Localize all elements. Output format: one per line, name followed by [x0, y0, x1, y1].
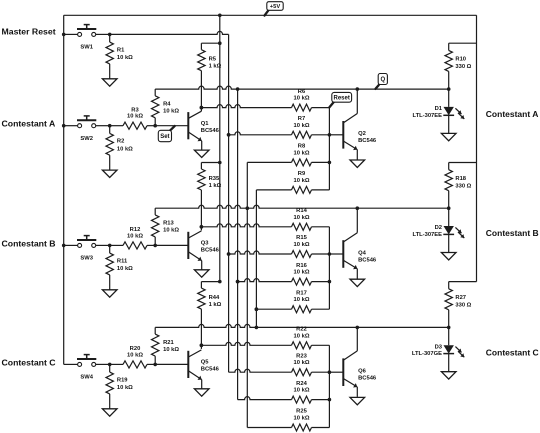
- svg-text:R3: R3: [131, 107, 139, 113]
- ground under R11: [102, 290, 117, 297]
- node Q_C junctions: [356, 326, 360, 330]
- ground under Q4 emitter: [350, 279, 365, 286]
- svg-text:Q2: Q2: [358, 131, 366, 137]
- node +5V rail to bus1 junction: [218, 14, 222, 18]
- svg-text:R8: R8: [298, 144, 306, 150]
- ground under D2: [441, 253, 456, 260]
- svg-text:SW2: SW2: [80, 136, 93, 142]
- resistor R23 10 kΩ: [292, 369, 312, 376]
- resistor R10 330 Ω: [448, 43, 450, 50]
- wire R22 feed line: [201, 342, 291, 345]
- label Reset flag: [329, 102, 334, 107]
- svg-text:R23: R23: [296, 353, 307, 359]
- ground under R19: [102, 409, 117, 416]
- svg-text:R12: R12: [130, 227, 141, 233]
- svg-text:D2: D2: [435, 225, 442, 231]
- svg-text:10 kΩ: 10 kΩ: [294, 388, 310, 394]
- resistor R18 330 Ω: [448, 163, 450, 170]
- svg-text:10 kΩ: 10 kΩ: [163, 228, 179, 234]
- svg-text:330 Ω: 330 Ω: [455, 64, 471, 70]
- resistor R22 10 kΩ: [292, 342, 312, 349]
- svg-text:10 kΩ: 10 kΩ: [127, 114, 143, 120]
- node Q1 collector junction: [200, 106, 204, 110]
- svg-text:R27: R27: [455, 295, 466, 301]
- resistor R27 330 Ω: [448, 282, 450, 289]
- resistor R16 10 kΩ: [292, 278, 312, 285]
- svg-text:SW3: SW3: [80, 256, 93, 262]
- svg-text:Set: Set: [160, 134, 169, 140]
- resistor R21 10 kΩ feedback: [154, 327, 156, 334]
- power +5V label: [265, 10, 269, 15]
- wire bus B5 (Q_C output distribution): [255, 190, 257, 328]
- svg-text:Contestant A: Contestant A: [486, 109, 539, 119]
- svg-text:R9: R9: [298, 171, 306, 177]
- svg-text:10 kΩ: 10 kΩ: [294, 215, 310, 221]
- resistor R11 10 kΩ: [109, 245, 111, 253]
- transistor Q5 BC546 NPN: [187, 351, 189, 378]
- LED D2 LTL-307EE: [448, 208, 450, 226]
- svg-text:10 kΩ: 10 kΩ: [117, 147, 133, 153]
- wire R8 feed line: [247, 161, 291, 163]
- wire R23 feed line: [229, 369, 292, 372]
- svg-text:R35: R35: [209, 176, 220, 182]
- wire R18 feed stub from right bus: [449, 162, 477, 164]
- wire R35 top feed from +5V bus: [201, 162, 219, 164]
- svg-text:10 kΩ: 10 kΩ: [127, 233, 143, 239]
- svg-text:BC546: BC546: [358, 257, 377, 263]
- node base node junction: [153, 363, 157, 367]
- resistor R13 10 kΩ feedback: [154, 208, 156, 215]
- svg-text:10 kΩ: 10 kΩ: [294, 297, 310, 303]
- resistor R20 10 kΩ: [123, 361, 147, 368]
- node R11 top junction: [108, 244, 112, 248]
- resistor R1 10 kΩ: [109, 34, 111, 42]
- wire bus B2 (reset distribution): [228, 34, 230, 372]
- node R7 base-bus junction: [328, 133, 332, 137]
- svg-text:R20: R20: [130, 346, 141, 352]
- svg-text:1 kΩ: 1 kΩ: [209, 64, 222, 70]
- wire Q4 base lead: [329, 253, 343, 255]
- svg-text:10 kΩ: 10 kΩ: [294, 150, 310, 156]
- resistor R4 10 kΩ feedback: [154, 89, 156, 96]
- resistor R3 10 kΩ: [123, 122, 147, 129]
- svg-text:10 kΩ: 10 kΩ: [117, 266, 133, 272]
- wire Q2 base bus: [328, 108, 330, 190]
- node Q_B junctions: [356, 206, 360, 210]
- svg-text:R5: R5: [209, 57, 217, 63]
- svg-text:R13: R13: [163, 221, 174, 227]
- node base node junction: [153, 124, 157, 128]
- ground under D3: [441, 372, 456, 379]
- svg-text:BC546: BC546: [201, 128, 220, 134]
- node R17 left junction: [255, 307, 259, 311]
- wire base node to Q1 base: [155, 125, 188, 127]
- resistor R24 10 kΩ: [292, 396, 312, 403]
- node bus B3 top junction: [236, 87, 240, 91]
- switch SW1 pushbutton: [78, 32, 82, 36]
- svg-text:Q1: Q1: [201, 121, 210, 127]
- svg-text:BC546: BC546: [358, 376, 377, 382]
- svg-text:Contestant B: Contestant B: [486, 228, 539, 238]
- node bus B5 junctions: [255, 307, 259, 311]
- wire R17 feed line: [256, 308, 291, 310]
- svg-text:Master Reset: Master Reset: [2, 27, 56, 37]
- ground under R1: [102, 79, 117, 86]
- wire R15 feed line: [229, 251, 292, 254]
- svg-text:LTL-307EE: LTL-307EE: [412, 232, 442, 238]
- svg-text:10 kΩ: 10 kΩ: [294, 242, 310, 248]
- resistor R25 10 kΩ: [292, 424, 312, 431]
- switch SW3 pushbutton: [78, 243, 82, 247]
- svg-text:+5V: +5V: [270, 4, 281, 10]
- svg-text:Q: Q: [380, 77, 385, 83]
- node R23 base-bus junction: [328, 370, 332, 374]
- LED D3 LTL-307GE: [448, 327, 450, 345]
- wire row A switch line: [64, 125, 78, 127]
- svg-text:Q4: Q4: [358, 250, 367, 256]
- resistor R15 10 kΩ: [292, 251, 312, 258]
- svg-text:10 kΩ: 10 kΩ: [294, 270, 310, 276]
- svg-text:R14: R14: [296, 208, 307, 214]
- svg-text:BC546: BC546: [201, 248, 220, 254]
- wire Q4 base bus: [328, 227, 330, 309]
- svg-text:LTL-307EE: LTL-307EE: [412, 113, 442, 119]
- switch SW2 pushbutton: [78, 124, 82, 128]
- svg-text:330 Ω: 330 Ω: [455, 303, 471, 309]
- wire Q6 base bus: [328, 345, 330, 427]
- wire right supply bus: [476, 15, 478, 281]
- svg-text:1 kΩ: 1 kΩ: [209, 302, 222, 308]
- node R19 top junction: [108, 363, 112, 367]
- wire master reset to bus B2: [110, 31, 229, 34]
- label Set flag: [170, 126, 175, 131]
- node R15 left junction: [227, 252, 231, 256]
- wire base node to Q5 base: [155, 363, 188, 365]
- svg-text:R4: R4: [163, 102, 171, 108]
- svg-text:R24: R24: [296, 381, 307, 387]
- wire Q_C output line (row C): [155, 324, 449, 327]
- svg-text:Contestant C: Contestant C: [486, 347, 539, 357]
- wire R24 feed line: [238, 397, 292, 400]
- node R2 top junction: [108, 124, 112, 128]
- LED D1 LTL-307EE: [448, 89, 450, 107]
- resistor R14 10 kΩ: [292, 223, 312, 230]
- wire R14 feed line: [201, 224, 291, 227]
- node Q5 collector junction: [200, 344, 204, 348]
- svg-text:R11: R11: [117, 258, 128, 264]
- resistor R44 1 kΩ pull-up: [200, 282, 202, 289]
- svg-text:BC546: BC546: [358, 138, 377, 144]
- resistor R9 10 kΩ: [292, 186, 312, 193]
- wire R12 to base node: [147, 244, 155, 246]
- wire bus B1 +5V distribution: [219, 15, 221, 281]
- ground under Q3 emitter: [194, 270, 209, 277]
- svg-text:330 Ω: 330 Ω: [455, 183, 471, 189]
- wire R7 feed line: [229, 132, 292, 135]
- svg-text:R16: R16: [296, 263, 307, 269]
- svg-text:R7: R7: [298, 116, 305, 122]
- resistor R8 10 kΩ: [292, 159, 312, 166]
- wire master reset row: [64, 33, 78, 35]
- node base node junction: [153, 244, 157, 248]
- wire R11 junction to R12: [110, 244, 123, 246]
- wire row C switch line: [64, 363, 78, 365]
- svg-text:10 kΩ: 10 kΩ: [117, 55, 133, 61]
- node Q3 collector junction: [200, 225, 204, 229]
- node left bus row B junction: [62, 244, 66, 248]
- wire R10 feed stub from right bus: [449, 42, 477, 44]
- resistor R19 10 kΩ: [109, 364, 111, 372]
- wire +5V top rail: [64, 14, 477, 16]
- svg-text:R19: R19: [117, 377, 128, 383]
- wire R27 feed stub from right bus: [449, 281, 477, 283]
- node R7 left junction: [227, 133, 231, 137]
- node bus B2 junctions: [227, 133, 231, 137]
- wire R20 to base node: [147, 363, 155, 365]
- svg-text:R15: R15: [296, 235, 307, 241]
- wire R19 junction to R20: [110, 363, 123, 365]
- node R6 left junction: [200, 106, 204, 110]
- svg-text:Contestant A: Contestant A: [2, 119, 56, 129]
- node bus B1 feeds: [218, 41, 222, 45]
- resistor R2 10 kΩ: [109, 126, 111, 134]
- svg-text:10 kΩ: 10 kΩ: [163, 347, 179, 353]
- svg-text:10 kΩ: 10 kΩ: [117, 385, 133, 391]
- node R8 base-bus junction: [328, 161, 332, 165]
- wire bus B4 (Q_B output distribution): [246, 162, 248, 427]
- svg-text:10 kΩ: 10 kΩ: [294, 333, 310, 339]
- svg-text:Q6: Q6: [358, 369, 367, 375]
- svg-text:R44: R44: [209, 295, 220, 301]
- node R16 base-bus junction: [328, 280, 332, 284]
- svg-text:R1: R1: [117, 47, 125, 53]
- wire base node to Q3 base: [155, 244, 188, 246]
- svg-text:10 kΩ: 10 kΩ: [294, 178, 310, 184]
- transistor Q3 BC546 NPN: [187, 232, 189, 259]
- svg-text:R21: R21: [163, 340, 174, 346]
- wire R5 top feed from +5V bus: [201, 42, 219, 44]
- svg-text:10 kΩ: 10 kΩ: [163, 109, 179, 115]
- switch SW4 pushbutton: [78, 362, 82, 366]
- wire R3 to base node: [147, 125, 155, 127]
- transistor Q6 BC546 NPN: [342, 358, 344, 386]
- wire Q6 base lead: [329, 371, 343, 373]
- node R16 left junction: [236, 280, 240, 284]
- svg-text:SW1: SW1: [80, 45, 93, 51]
- wire R6 feed line: [201, 105, 291, 108]
- ground under Q6 emitter: [350, 397, 365, 404]
- node bus B4 junction: [246, 206, 250, 210]
- svg-text:Reset: Reset: [334, 96, 350, 102]
- svg-text:R2: R2: [117, 139, 124, 145]
- svg-text:Contestant C: Contestant C: [2, 357, 57, 367]
- ground under Q1 emitter: [194, 150, 209, 157]
- label Q flag: [375, 85, 378, 89]
- svg-text:10 kΩ: 10 kΩ: [294, 360, 310, 366]
- svg-text:Contestant B: Contestant B: [2, 238, 56, 248]
- ground under D1: [441, 133, 456, 140]
- node left bus row A junction: [62, 124, 66, 128]
- ground under Q2 emitter: [350, 160, 365, 167]
- svg-text:BC546: BC546: [201, 367, 220, 373]
- wire R16 feed line: [238, 279, 292, 282]
- svg-text:Q3: Q3: [201, 241, 210, 247]
- wire R2 junction to R3: [110, 125, 123, 127]
- svg-text:1 kΩ: 1 kΩ: [209, 183, 222, 189]
- node Q_A junctions: [356, 87, 360, 91]
- wire Q_B output line (row B): [155, 205, 449, 208]
- svg-text:D1: D1: [435, 106, 443, 112]
- wire Q2 base lead: [329, 134, 343, 136]
- transistor Q4 BC546 NPN: [342, 240, 344, 268]
- svg-text:10 kΩ: 10 kΩ: [294, 123, 310, 129]
- svg-text:SW4: SW4: [80, 375, 93, 381]
- transistor Q1 BC546 NPN: [187, 112, 189, 139]
- svg-text:LTL-307GE: LTL-307GE: [412, 351, 442, 357]
- resistor R35 1 kΩ pull-up: [200, 163, 202, 170]
- svg-text:10 kΩ: 10 kΩ: [294, 416, 310, 422]
- wire row B switch line: [64, 244, 78, 246]
- resistor R12 10 kΩ: [123, 242, 147, 249]
- node R22 left junction: [200, 344, 204, 348]
- ground under Q5 emitter: [194, 389, 209, 396]
- wire R9 feed line: [256, 189, 291, 191]
- svg-text:R22: R22: [296, 327, 307, 333]
- node R15 base-bus junction: [328, 252, 332, 256]
- node R14 left junction: [200, 225, 204, 229]
- transistor Q2 BC546 NPN: [342, 121, 344, 149]
- svg-text:10 kΩ: 10 kΩ: [127, 352, 143, 358]
- svg-text:R25: R25: [296, 409, 307, 415]
- resistor R17 10 kΩ: [292, 306, 312, 313]
- svg-text:R18: R18: [455, 176, 466, 182]
- wire left supply bus: [63, 15, 65, 364]
- wire bus B3 (Q_A output distribution): [237, 89, 239, 400]
- node R1 top junction: [108, 33, 112, 37]
- svg-text:R17: R17: [296, 290, 307, 296]
- svg-text:R10: R10: [455, 57, 466, 63]
- node R24 base-bus junction: [328, 398, 332, 402]
- wire Q_A output line (row A): [155, 86, 449, 89]
- node master reset left junction: [62, 33, 66, 37]
- wire R25 feed line: [247, 427, 291, 429]
- svg-text:R6: R6: [298, 89, 306, 95]
- resistor R5 1 kΩ pull-up: [200, 43, 202, 50]
- wire R44 top feed from +5V bus: [201, 281, 219, 283]
- svg-text:Q5: Q5: [201, 360, 210, 366]
- ground under R2: [102, 170, 117, 177]
- svg-text:D3: D3: [435, 344, 443, 350]
- svg-text:10 kΩ: 10 kΩ: [294, 96, 310, 102]
- resistor R7 10 kΩ: [292, 131, 312, 138]
- resistor R6 10 kΩ: [292, 104, 312, 111]
